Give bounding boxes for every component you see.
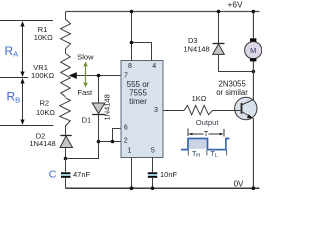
diode D3 bbox=[213, 12, 254, 72]
wire pin 1 ground stub bbox=[131, 158, 133, 189]
D3 label bbox=[183, 36, 209, 53]
svg-text:4: 4 bbox=[152, 63, 156, 70]
svg-text:10nF: 10nF bbox=[160, 170, 178, 179]
transistor Q1 2N3055 bbox=[235, 97, 257, 188]
resistor R2 bbox=[60, 98, 71, 135]
svg-text:1KΩ: 1KΩ bbox=[192, 94, 207, 103]
svg-text:timer: timer bbox=[129, 97, 147, 106]
svg-text:2N3055: 2N3055 bbox=[219, 79, 247, 88]
diode D2 bbox=[60, 136, 73, 159]
capacitor C2 10nF bbox=[148, 158, 158, 189]
svg-text:3: 3 bbox=[154, 107, 158, 114]
svg-text:0V: 0V bbox=[234, 179, 244, 188]
svg-text:Slow: Slow bbox=[77, 52, 94, 61]
wire pin 8 supply stub bbox=[131, 12, 133, 61]
node junction pin8-pin4 bbox=[130, 41, 134, 45]
wire pin 3 output bbox=[163, 110, 184, 112]
node junction rail-motor bbox=[252, 10, 256, 14]
svg-text:TL: TL bbox=[211, 151, 218, 159]
wire 0V bottom rail bbox=[66, 187, 260, 189]
potentiometer VR1 bbox=[61, 53, 70, 96]
node junction C top bbox=[64, 157, 68, 161]
svg-text:2: 2 bbox=[124, 137, 128, 144]
node junction C2-rail bbox=[151, 186, 155, 190]
node junction rail-pin8 bbox=[130, 10, 134, 14]
node junction emitter-rail bbox=[252, 186, 256, 190]
output waveform trace bbox=[181, 139, 230, 150]
svg-text:or similar: or similar bbox=[216, 88, 248, 97]
node junction rail-D3 bbox=[217, 10, 221, 14]
svg-text:Fast: Fast bbox=[78, 88, 94, 97]
svg-text:+6V: +6V bbox=[228, 0, 243, 9]
svg-text:6: 6 bbox=[124, 124, 128, 131]
motor M1 bbox=[245, 12, 262, 101]
output waveform period dimension T bbox=[188, 129, 224, 139]
node junction pin6-pin2 bbox=[111, 140, 115, 144]
svg-text:1N4148: 1N4148 bbox=[183, 44, 209, 53]
R2 value label bbox=[36, 98, 55, 117]
wire pin 2 bbox=[99, 141, 122, 143]
wire from C top to pins 2-6 node bbox=[66, 142, 99, 159]
svg-text:7: 7 bbox=[124, 73, 128, 80]
node junction D3-collector bbox=[252, 70, 256, 74]
svg-text:M: M bbox=[250, 46, 256, 55]
svg-text:1N4148: 1N4148 bbox=[29, 139, 55, 148]
capacitor C 47nF bbox=[61, 159, 71, 189]
U1 label bbox=[127, 80, 150, 106]
svg-text:10KΩ: 10KΩ bbox=[34, 33, 53, 42]
node RA dimension bbox=[0, 21, 53, 78]
svg-text:T: T bbox=[204, 131, 209, 138]
svg-text:1N4148: 1N4148 bbox=[102, 94, 111, 120]
output waveform high-pulse fill bbox=[189, 139, 207, 149]
svg-text:R2: R2 bbox=[40, 98, 50, 107]
svg-text:100KΩ: 100KΩ bbox=[31, 71, 55, 80]
wire base bbox=[213, 110, 235, 112]
diode D1 bbox=[92, 76, 105, 142]
svg-text:D1: D1 bbox=[82, 116, 92, 125]
output waveform TH TL ticks bbox=[188, 150, 226, 156]
wire pin 6 bracket bbox=[113, 129, 122, 142]
svg-text:C: C bbox=[49, 168, 57, 180]
wire pin 4 branch bbox=[132, 43, 152, 61]
VR1 wiper arrow bbox=[69, 72, 121, 79]
node junction D1-pin2 bbox=[97, 140, 101, 144]
Q1 label bbox=[216, 79, 248, 97]
svg-text:10KΩ: 10KΩ bbox=[36, 108, 55, 117]
svg-text:Output: Output bbox=[196, 118, 220, 127]
slow-fast green adjustment arrow bbox=[83, 62, 88, 88]
resistor R1 bbox=[61, 12, 71, 54]
node junction wiper-D1 bbox=[97, 74, 101, 78]
svg-text:TH: TH bbox=[192, 151, 200, 159]
op-amp U1 555 timer body bbox=[121, 61, 163, 158]
svg-text:1: 1 bbox=[127, 147, 131, 154]
svg-text:5: 5 bbox=[151, 147, 155, 154]
svg-text:47nF: 47nF bbox=[73, 170, 91, 179]
resistor R3 1K bbox=[184, 105, 213, 114]
node junction pin1-rail bbox=[130, 186, 134, 190]
R1 value label bbox=[34, 25, 53, 42]
VR1 value label bbox=[31, 63, 55, 80]
wire +6V top rail bbox=[66, 11, 260, 13]
node RB dimension bbox=[0, 78, 53, 126]
svg-text:8: 8 bbox=[128, 63, 132, 70]
D2 label bbox=[29, 132, 55, 148]
